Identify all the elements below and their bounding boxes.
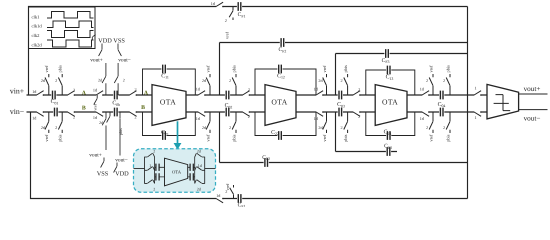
capacitor CF1 (top) (237, 5, 242, 7)
pbis hanging switch (stage1-2 top) (232, 74, 236, 95)
comparator U4 (487, 84, 519, 119)
svg-text:vout−: vout− (524, 115, 541, 123)
wire: top rail segment 3 (296, 94, 375, 96)
switch 1 (comparator input top) (474, 94, 480, 96)
mini inner bus (right) (194, 157, 196, 183)
svg-text:2: 2 (153, 149, 155, 154)
svg-text:vout−: vout− (118, 57, 131, 63)
capacitor C04 bottom (439, 111, 444, 113)
vref hanging switch (bottom input) (45, 112, 49, 133)
op-amp OTA U2 (265, 85, 296, 126)
switch 1d (OTA1 output bottom) (198, 111, 204, 113)
switch 1d on bottom feedback line (216, 197, 222, 199)
switch from VSS (top) (118, 44, 121, 57)
svg-text:2: 2 (73, 87, 75, 92)
svg-text:vref: vref (44, 134, 49, 142)
feedback loop C13 (OTA3 top) (366, 70, 415, 95)
svg-text:VDD: VDD (115, 170, 129, 177)
pbis hanging switch (stage3-4 bottom) (446, 112, 450, 133)
svg-text:vout+: vout+ (524, 85, 541, 93)
wire rail to vout- (bottom) (119, 112, 121, 156)
vref hanging switch (stage3-4 top) (429, 74, 433, 95)
svg-text:2d: 2d (197, 149, 201, 154)
svg-text:2: 2 (426, 78, 428, 83)
switch 1d (vin- sampling) (37, 111, 43, 113)
svg-text:vref: vref (428, 65, 433, 73)
wire: top feedback line from vin+ node (29, 7, 468, 96)
vref hanging switch (stage1-2 top) (206, 74, 210, 95)
switch to VSS (bottom) (101, 158, 104, 168)
svg-text:VSS: VSS (97, 170, 109, 177)
capacitor C03 bottom (338, 111, 343, 113)
detail box (OTA switch detail) (134, 149, 216, 193)
svg-text:vout+: vout+ (90, 57, 103, 63)
svg-text:pbis: pbis (343, 134, 348, 142)
feedback loop C22 (OTA2 bottom) (255, 112, 316, 136)
svg-text:vout+: vout+ (89, 152, 102, 158)
svg-text:vref: vref (205, 134, 210, 142)
comparator hysteresis symbol (494, 95, 511, 111)
capacitor CF3 (bottom) (386, 150, 391, 152)
capacitor CF3 (top) (384, 52, 389, 54)
svg-text:2d: 2d (197, 186, 201, 191)
wire: third feedback line (bottom) (336, 112, 398, 152)
svg-text:vref: vref (428, 134, 433, 142)
pbis hanging switch (stage2-3 bottom) (344, 112, 348, 133)
vref mid branch (bottom) (107, 112, 110, 123)
svg-text:B: B (82, 106, 86, 112)
switch 1d (second, bottom) (96, 111, 102, 113)
wire vout+ to rail (top) (102, 63, 106, 95)
switch 1d on top feedback line (216, 5, 222, 7)
mini inner bus (left) (154, 157, 156, 183)
vref mid branch (top) (94, 95, 97, 105)
svg-text:2: 2 (358, 87, 360, 92)
op-amp mini OTA (165, 158, 188, 186)
svg-text:OTA: OTA (382, 97, 398, 106)
wire: bottom feedback line from vin- node (31, 112, 468, 199)
mini switch 2d (right bottom) (195, 180, 205, 184)
wire: bottom rail segment 3 (296, 111, 375, 113)
feedback loop C12 (OTA2 top) (255, 69, 316, 95)
svg-text:2: 2 (248, 114, 250, 119)
svg-text:clk1d: clk1d (32, 24, 43, 29)
capacitor CF1 (bottom) (237, 197, 242, 199)
mini capacitor left lower (156, 173, 159, 180)
svg-text:2: 2 (426, 125, 428, 130)
mini capacitor right lower (190, 173, 193, 180)
svg-text:2: 2 (443, 78, 445, 83)
switch 2 (OTA2 input bottom) (243, 111, 249, 113)
switch 1d (OTA3 output top) (422, 94, 428, 96)
pbis hanging switch (stage3-4 top) (446, 74, 450, 95)
clock timing diagram box (29, 7, 96, 49)
switch 2 (OTA3 input top) (353, 94, 359, 96)
svg-text:vref: vref (92, 103, 97, 110)
capacitor C01 (51, 94, 56, 96)
svg-text:1d: 1d (198, 163, 202, 168)
svg-text:OTA: OTA (160, 97, 176, 106)
mini circuit right bus wire (205, 157, 216, 184)
svg-text:VDD VSS: VDD VSS (98, 37, 125, 44)
wire: top rail segment 2 (186, 94, 265, 96)
svg-text:pbis: pbis (58, 134, 63, 142)
wire: right feedback bus vertical (467, 7, 469, 199)
svg-text:pbis: pbis (118, 128, 123, 135)
vref reset branch on bottom feedback line (230, 185, 234, 199)
switch 1 (comparator input bottom) (474, 111, 480, 113)
vref hanging switch (stage1-2 bottom) (206, 112, 210, 133)
pbis hanging switch (top input) (58, 74, 62, 95)
svg-text:1: 1 (474, 86, 476, 91)
vref reset branch on top feedback line (229, 7, 233, 21)
svg-text:2: 2 (341, 78, 343, 83)
capacitor C0b (113, 94, 118, 96)
switch 1d (OTA3 output bottom) (422, 111, 428, 113)
capacitor C02 top (225, 94, 230, 96)
svg-text:2: 2 (443, 125, 445, 130)
svg-text:OTA: OTA (271, 97, 287, 106)
svg-text:vref: vref (224, 32, 229, 39)
vref hanging switch (stage2-3 top) (323, 74, 327, 95)
svg-text:2: 2 (55, 125, 57, 130)
svg-text:B: B (141, 105, 145, 111)
switch 1d (vin+ sampling) (37, 94, 43, 96)
svg-text:2: 2 (341, 125, 343, 130)
wire: second feedback line (top) (220, 43, 468, 96)
mini switch 2 (left bottom) (145, 180, 155, 184)
wire: bottom rail segment 2 (186, 111, 265, 113)
switch 2 (bottom input) (68, 111, 74, 113)
op-amp OTA U3 (375, 85, 407, 126)
svg-text:2: 2 (358, 114, 360, 119)
mini wires into OTA left (155, 167, 165, 177)
svg-text:1: 1 (149, 163, 151, 168)
switch 2 (OTA3 input bottom) (353, 111, 359, 113)
wire: bottom rail segment 4 (407, 111, 487, 113)
clock waveform clk1 (47, 12, 94, 19)
clock waveform clk2d (47, 40, 94, 47)
pbis hanging switch (stage1-2 bottom) (232, 112, 236, 133)
svg-text:2: 2 (225, 189, 227, 194)
wire: third feedback line (top) (336, 54, 468, 96)
switch to VDD (bottom) (114, 163, 117, 173)
svg-text:2: 2 (123, 77, 125, 82)
svg-text:clk2: clk2 (32, 33, 41, 38)
svg-text:2: 2 (134, 87, 136, 92)
svg-text:pbis: pbis (231, 65, 236, 73)
switch 2 (second, top) (130, 94, 136, 96)
mini capacitor right upper (190, 164, 193, 171)
wire: bottom rail segment 1 (27, 111, 153, 113)
mini switch 2d (right top) (195, 153, 205, 157)
mini wires out of OTA right (188, 167, 195, 177)
svg-text:2: 2 (225, 18, 227, 23)
switch 2 (top input) (68, 94, 74, 96)
feedback loop C23 (OTA3 bottom) (366, 112, 415, 136)
capacitor C01 bottom (53, 111, 58, 113)
svg-text:clk2d: clk2d (32, 42, 43, 47)
capacitor C0b bottom (113, 111, 118, 113)
svg-text:pbis: pbis (445, 134, 450, 142)
capacitor CF2 (bottom) (264, 161, 269, 163)
svg-text:vin+: vin+ (10, 87, 25, 96)
op-amp OTA U1 (152, 85, 186, 126)
vref hanging switch (stage3-4 bottom) (429, 112, 433, 133)
wire: second feedback line (bottom) (220, 112, 468, 163)
capacitor C03 top (338, 94, 343, 96)
mini switch 2 (left top) (145, 153, 155, 157)
mini circuit left bus wire (134, 157, 145, 184)
vref hanging switch (top input) (45, 74, 49, 95)
svg-text:2: 2 (229, 78, 231, 83)
svg-text:vin−: vin− (10, 107, 25, 116)
svg-text:2: 2 (55, 78, 57, 83)
wire: top rail segment 4 (407, 94, 487, 96)
svg-text:2d: 2d (99, 120, 103, 125)
capacitor C04 top (439, 94, 444, 96)
capacitor CF2 (top) (280, 41, 285, 43)
svg-text:pbis: pbis (445, 65, 450, 73)
svg-text:2: 2 (153, 186, 155, 191)
switch 2 (second, bottom) (130, 111, 136, 113)
svg-text:2: 2 (134, 114, 136, 119)
switch 1d (second, top) (96, 94, 102, 96)
switch from VDD (top) (99, 44, 102, 57)
svg-text:pbis: pbis (343, 65, 348, 73)
switch 1d (OTA2 output bottom) (316, 111, 322, 113)
switch 2 (OTA2 input top) (243, 94, 249, 96)
mini switch 1 (left middle) (145, 167, 155, 171)
svg-text:2: 2 (73, 115, 75, 120)
svg-text:1: 1 (474, 115, 476, 120)
svg-text:2: 2 (248, 87, 250, 92)
svg-text:vref: vref (322, 65, 327, 73)
svg-text:pbis: pbis (58, 65, 63, 73)
wire rail to vout+ (bottom) (102, 112, 106, 150)
switch 1d (OTA2 output top) (316, 94, 322, 96)
wire comparator output vout- (519, 109, 548, 111)
svg-text:vref: vref (44, 65, 49, 73)
svg-text:vref: vref (322, 134, 327, 142)
capacitor C02 bottom (225, 111, 230, 113)
teal detail arrow (177, 121, 179, 143)
svg-text:vref: vref (205, 65, 210, 73)
vref hanging switch (stage2-3 bottom) (323, 112, 327, 133)
pbis hanging switch (bottom input) (58, 112, 62, 133)
wire: top rail segment 1 (27, 94, 153, 96)
mini capacitor left upper (156, 164, 159, 171)
feedback loop C11 (OTA1 top) (143, 69, 196, 95)
feedback loop C21 (OTA1 bottom) (143, 112, 196, 136)
wire comparator output vout+ (519, 93, 548, 95)
switch 1d (OTA1 output top) (198, 94, 204, 96)
svg-text:2d: 2d (98, 77, 102, 82)
wire vout- to rail (top) (114, 63, 118, 95)
pbis hanging switch (stage2-3 top) (344, 74, 348, 95)
svg-text:OTA: OTA (172, 170, 182, 175)
clock waveform clk2 (47, 31, 94, 38)
mini switch 1d (right middle) (195, 167, 205, 171)
clock waveform clk1d (47, 21, 94, 28)
svg-text:2: 2 (229, 125, 231, 130)
svg-text:pbis: pbis (231, 134, 236, 142)
svg-text:clk1: clk1 (32, 14, 41, 19)
